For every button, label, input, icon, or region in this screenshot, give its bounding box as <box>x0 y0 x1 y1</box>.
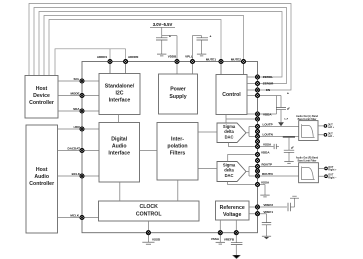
svg-text:VREF1: VREF1 <box>263 210 273 214</box>
svg-text:ZEROR: ZEROR <box>263 82 274 86</box>
svg-text:Audio: Audio <box>112 144 127 150</box>
svg-text:SDA: SDA <box>73 107 80 111</box>
svg-text:Audio: Audio <box>34 174 49 180</box>
svg-text:CONTROL: CONTROL <box>136 211 162 217</box>
svg-text:MUTE1: MUTE1 <box>206 58 216 62</box>
svg-text:Control: Control <box>222 92 241 98</box>
svg-text:MODE: MODE <box>71 92 80 96</box>
svg-text:VREFB: VREFB <box>224 237 235 241</box>
svg-text:VSSA: VSSA <box>261 181 270 185</box>
svg-text:Right –: Right – <box>328 177 337 180</box>
svg-text:delta: delta <box>224 168 234 173</box>
svg-text:polation: polation <box>167 144 187 150</box>
svg-text:CLOCK: CLOCK <box>139 204 158 210</box>
svg-text:LOUTP: LOUTP <box>263 123 273 127</box>
svg-text:VDDB: VDDB <box>168 55 177 59</box>
svg-text:Host: Host <box>36 86 48 92</box>
svg-text:I2C: I2C <box>115 91 123 97</box>
svg-text:Right +: Right + <box>328 169 337 172</box>
svg-text:Standalone/: Standalone/ <box>105 84 135 90</box>
svg-text:EN: EN <box>266 88 270 92</box>
svg-text:VSSA: VSSA <box>263 143 272 147</box>
svg-text:LOUTN: LOUTN <box>263 133 273 137</box>
svg-text:VDDA: VDDA <box>263 112 272 116</box>
svg-text:BCLK: BCLK <box>72 172 81 176</box>
svg-text:Digital: Digital <box>111 137 127 143</box>
svg-text:ROUTN: ROUTN <box>262 172 273 176</box>
svg-text:VSSD: VSSD <box>152 237 161 241</box>
svg-text:VREF2: VREF2 <box>263 203 273 207</box>
svg-text:Power: Power <box>170 87 186 93</box>
svg-text:ZEROL: ZEROL <box>263 75 273 79</box>
svg-text:+: + <box>210 35 212 39</box>
svg-text:Left –: Left – <box>328 135 335 138</box>
svg-text:Sigma: Sigma <box>223 124 236 129</box>
svg-text:MUTE2: MUTE2 <box>231 58 241 62</box>
svg-text:Left +: Left + <box>328 126 335 129</box>
svg-text:Voltage: Voltage <box>223 212 241 218</box>
svg-text:Sigma: Sigma <box>223 162 236 167</box>
svg-text:Host: Host <box>36 167 48 173</box>
svg-text:LRCK: LRCK <box>74 127 81 129</box>
svg-text:Reference: Reference <box>220 205 245 211</box>
svg-text:VPLL: VPLL <box>185 55 193 59</box>
svg-text:Interface: Interface <box>109 98 131 104</box>
svg-text:VSSA: VSSA <box>211 237 220 241</box>
svg-text:DAC: DAC <box>225 173 234 178</box>
svg-text:µF: µF <box>291 147 294 150</box>
svg-text:Controller: Controller <box>29 100 54 106</box>
svg-text:DAC: DAC <box>225 134 234 139</box>
svg-text:delta: delta <box>224 129 234 134</box>
svg-text:Filters: Filters <box>170 151 186 157</box>
svg-text:MCLK: MCLK <box>70 214 79 218</box>
svg-text:ROUTP: ROUTP <box>262 163 273 167</box>
svg-text:Inter-: Inter- <box>171 137 184 143</box>
svg-text:ADDR1: ADDR1 <box>97 55 108 59</box>
svg-text:SCL: SCL <box>74 77 80 81</box>
svg-text:DACDAT: DACDAT <box>68 147 81 151</box>
svg-text:µF: µF <box>287 107 290 110</box>
svg-text:Supply: Supply <box>169 94 186 100</box>
svg-text:+: + <box>169 35 171 39</box>
svg-text:Device: Device <box>33 93 50 99</box>
svg-text:1 µF: 1 µF <box>284 119 289 121</box>
svg-text:3.0V–5.5V: 3.0V–5.5V <box>153 22 173 27</box>
svg-text:Interface: Interface <box>108 151 130 157</box>
svg-text:Controller: Controller <box>29 181 54 187</box>
svg-text:+: + <box>287 92 289 96</box>
svg-text:VDDA: VDDA <box>261 151 270 155</box>
svg-text:ADDR0: ADDR0 <box>128 55 139 59</box>
